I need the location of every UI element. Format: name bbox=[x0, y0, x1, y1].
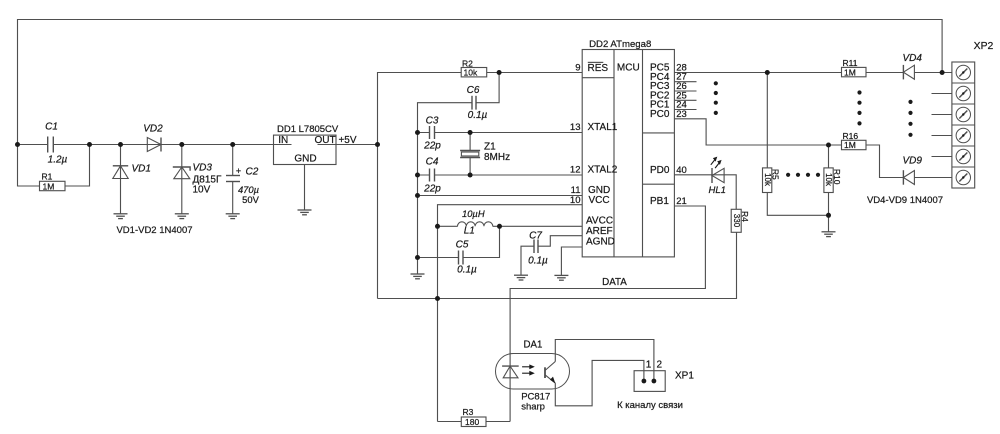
svg-text:12: 12 bbox=[570, 165, 581, 176]
opto coupling arrows bbox=[522, 364, 535, 375]
svg-text:R11: R11 bbox=[843, 58, 858, 68]
junction node VCC rail +5V rail cross bbox=[435, 296, 440, 301]
junction node GND rail XTAL2 bbox=[415, 173, 420, 178]
svg-text:C5: C5 bbox=[456, 240, 469, 251]
capacitor C4 bbox=[423, 157, 441, 195]
svg-text:OUT: OUT bbox=[314, 135, 335, 146]
wire XTAL1 line bbox=[418, 132, 583, 134]
wire crystal Z1 taps bbox=[469, 133, 471, 151]
svg-text:MCU: MCU bbox=[617, 62, 640, 73]
wire PC5 net to R11 and VD4 to XP2 bbox=[674, 72, 903, 74]
junction node +5V at DD1 OUT bbox=[375, 142, 380, 147]
crystal Z1 8MHz bbox=[460, 142, 510, 164]
LED HL1 bbox=[709, 157, 726, 196]
wire opto emitter to XP1 pin1 bbox=[555, 360, 644, 405]
svg-text:VD9: VD9 bbox=[903, 156, 923, 167]
ground under C7 bbox=[514, 275, 528, 280]
MCU U1 DD2 ATmega8 box bbox=[582, 39, 674, 257]
resistor R3 bbox=[461, 407, 486, 427]
wire XP2 stub pin5 bbox=[932, 156, 953, 158]
svg-text:1M: 1M bbox=[43, 181, 55, 191]
svg-text:+: + bbox=[236, 166, 241, 176]
svg-text:180: 180 bbox=[465, 417, 479, 427]
wire R16 to VD9 to XP2 pin6 bbox=[866, 145, 903, 178]
diode VD9 bbox=[903, 156, 923, 185]
svg-text:sharp: sharp bbox=[521, 402, 545, 413]
zener diode VD3 bbox=[173, 163, 222, 196]
junction node C1-R1 right bbox=[87, 142, 92, 147]
ground under GND rail bbox=[411, 274, 425, 279]
svg-text:PD0: PD0 bbox=[650, 165, 670, 176]
svg-text:C7: C7 bbox=[529, 231, 542, 242]
svg-text:XP1: XP1 bbox=[675, 370, 694, 381]
junction node C2 tap bbox=[230, 142, 235, 147]
svg-text:23: 23 bbox=[676, 109, 687, 120]
svg-text:К каналу связи: К каналу связи bbox=[617, 400, 683, 411]
wire PC0 to R16 line bbox=[674, 119, 866, 145]
junction node Z1 bottom bbox=[468, 173, 473, 178]
wire R5 R10 bottom rail to ground bbox=[767, 193, 828, 216]
svg-text:10k: 10k bbox=[763, 173, 772, 187]
svg-text:R1: R1 bbox=[42, 171, 53, 181]
resistor R2 bbox=[461, 59, 487, 78]
diode VD1 bbox=[113, 163, 151, 178]
svg-text:13: 13 bbox=[570, 122, 581, 133]
wire AREF to C7 to ground bbox=[538, 236, 582, 247]
resistor R10 bbox=[824, 168, 842, 193]
svg-text:8MHz: 8MHz bbox=[484, 152, 510, 163]
svg-text:VD4: VD4 bbox=[903, 53, 923, 64]
svg-text:1.2µ: 1.2µ bbox=[48, 155, 68, 166]
svg-text:XP2: XP2 bbox=[974, 41, 994, 52]
ground under AGND bbox=[554, 275, 568, 280]
resistor R4 bbox=[731, 209, 750, 232]
junction node AVCC L1 right bbox=[497, 224, 502, 229]
svg-text:DA1: DA1 bbox=[524, 339, 543, 350]
svg-text:330: 330 bbox=[732, 214, 741, 228]
svg-text:RES: RES bbox=[588, 63, 609, 74]
wire C2 branch to ground bbox=[232, 145, 234, 176]
capacitor C7 bbox=[528, 231, 548, 267]
ellipsis dots PC4-PC1 continuation bbox=[714, 81, 718, 115]
wire PB1 to DATA to optocoupler LED anode bbox=[510, 206, 705, 354]
svg-text:0.1µ: 0.1µ bbox=[468, 110, 488, 121]
wire VD3 branch to ground bbox=[181, 145, 183, 214]
wire opto collector to XP1 pin2 bbox=[555, 340, 654, 382]
svg-text:10µH: 10µH bbox=[462, 208, 485, 219]
wire DD1 GND pin to ground bbox=[304, 165, 306, 211]
junction node RES / C6 tap bbox=[497, 70, 502, 75]
svg-text:C3: C3 bbox=[426, 116, 439, 127]
opto internal LED bbox=[502, 354, 519, 378]
svg-text:9: 9 bbox=[575, 62, 580, 73]
ground under C2 bbox=[226, 214, 240, 219]
ground under DD1 bbox=[298, 210, 312, 215]
wire AGND to ground bbox=[561, 247, 582, 275]
optocoupler DA1 PC817 body bbox=[496, 339, 570, 412]
wire PD0 to HL1 to R4 bbox=[674, 175, 736, 210]
svg-text:1M: 1M bbox=[844, 67, 856, 77]
capacitor C3 bbox=[423, 116, 441, 152]
wire top loop from mains input to XP2 pin1 bbox=[18, 20, 943, 145]
wire R10 from R16 node bbox=[828, 145, 830, 168]
svg-text:VD3: VD3 bbox=[193, 163, 213, 174]
wire C6 link RES node to GND rail bbox=[418, 73, 500, 133]
svg-text:0.1µ: 0.1µ bbox=[457, 265, 477, 276]
resistor R5 bbox=[763, 168, 781, 193]
svg-text:1M: 1M bbox=[844, 140, 856, 150]
wire +5V bottom rail bbox=[378, 232, 737, 298]
svg-text:GND: GND bbox=[294, 154, 316, 165]
resistor R16 bbox=[842, 131, 867, 150]
svg-text:VD4-VD9 1N4007: VD4-VD9 1N4007 bbox=[867, 195, 943, 206]
wire PC3 stub bbox=[674, 90, 696, 92]
svg-text:R3: R3 bbox=[463, 407, 474, 417]
svg-text:VD1: VD1 bbox=[132, 163, 151, 174]
junction node AC input / R1 left bbox=[15, 142, 20, 147]
svg-text:PB1: PB1 bbox=[650, 196, 669, 207]
wire VCC pin 10 line and VCC rail bbox=[438, 205, 583, 422]
capacitor C2 electrolytic bbox=[226, 166, 260, 205]
svg-text:10k: 10k bbox=[824, 173, 833, 187]
wire XP2 stub pin4 bbox=[932, 135, 953, 137]
wire AVCC line bbox=[438, 225, 458, 227]
svg-text:1: 1 bbox=[646, 360, 652, 371]
capacitor C5 bbox=[456, 240, 477, 276]
junction node XP2 pin1 / top loop bbox=[940, 70, 945, 75]
svg-text:2: 2 bbox=[657, 360, 663, 371]
svg-text:C1: C1 bbox=[45, 122, 58, 133]
connector XP1 bbox=[634, 360, 694, 392]
svg-text:50V: 50V bbox=[242, 194, 259, 205]
wire PC2 stub bbox=[674, 99, 696, 101]
svg-text:AREF: AREF bbox=[586, 226, 613, 237]
ellipsis dots R12-R15 continuation bbox=[857, 90, 861, 125]
svg-text:Z1: Z1 bbox=[484, 142, 496, 153]
svg-text:0.1µ: 0.1µ bbox=[528, 255, 548, 266]
svg-text:VCC: VCC bbox=[589, 195, 610, 206]
diode VD4 bbox=[903, 53, 923, 79]
svg-text:C2: C2 bbox=[246, 167, 259, 178]
svg-text:22p: 22p bbox=[423, 140, 441, 151]
junction node Z1 top bbox=[468, 130, 473, 135]
svg-text:VD2: VD2 bbox=[143, 124, 163, 135]
junction node VCC rail L1 left bbox=[435, 224, 440, 229]
svg-text:22p: 22p bbox=[423, 183, 441, 194]
wire R1 parallel branch bbox=[18, 145, 40, 187]
svg-text:L1: L1 bbox=[464, 226, 475, 237]
voltage regulator DD1 L7805CV bbox=[274, 124, 339, 164]
svg-text:IN: IN bbox=[278, 135, 288, 146]
wire C5 line bbox=[418, 257, 459, 259]
svg-text:XTAL1: XTAL1 bbox=[588, 122, 618, 133]
wire XTAL2 line bbox=[418, 174, 583, 176]
opto phototransistor bbox=[545, 362, 555, 384]
ground under VD1 bbox=[114, 214, 128, 219]
svg-text:21: 21 bbox=[676, 196, 687, 207]
svg-text:HL1: HL1 bbox=[709, 185, 726, 196]
wire main AC line bbox=[18, 144, 274, 146]
junction node GND rail C5 bbox=[415, 255, 420, 260]
svg-text:C4: C4 bbox=[426, 157, 439, 168]
wire GND pin 11 line bbox=[418, 195, 583, 197]
ground under R5 R10 rail bbox=[822, 232, 836, 237]
capacitor C1 bbox=[45, 122, 67, 166]
wire left GND rail bbox=[417, 133, 419, 275]
resistor R11 bbox=[842, 58, 867, 78]
wire R5 pull-up from PC5 net bbox=[766, 73, 768, 168]
svg-text:10k: 10k bbox=[464, 68, 478, 78]
wire VD1 branch to ground bbox=[120, 145, 122, 214]
inductor L1 10uH bbox=[458, 208, 493, 237]
svg-text:VD1-VD2 1N4007: VD1-VD2 1N4007 bbox=[116, 225, 192, 236]
ground under VD3 bbox=[175, 214, 189, 219]
connector XP2 bbox=[952, 41, 994, 188]
capacitor C6 bbox=[467, 85, 488, 121]
svg-text:10: 10 bbox=[570, 195, 581, 206]
svg-text:DD1 L7805CV: DD1 L7805CV bbox=[277, 124, 339, 135]
junction node VD3 tap bbox=[179, 142, 184, 147]
wire opto LED through cathode down to R3 bbox=[509, 378, 511, 422]
junction node R16 line R10 tap bbox=[826, 143, 831, 148]
wire XP2 stub pin3 bbox=[932, 114, 953, 116]
svg-text:DD2 ATmega8: DD2 ATmega8 bbox=[589, 39, 651, 50]
wire R3 feed from +5V rail bbox=[438, 421, 511, 423]
svg-text:PC0: PC0 bbox=[650, 109, 670, 120]
svg-text:40: 40 bbox=[676, 165, 687, 176]
wire PC1 stub bbox=[674, 109, 696, 111]
svg-text:DATA: DATA bbox=[602, 277, 627, 288]
diode VD2 bbox=[143, 124, 163, 152]
svg-text:AGND: AGND bbox=[586, 236, 615, 247]
wire +5V vertical riser and RES feed bbox=[378, 73, 583, 299]
wire PC4 stub bbox=[674, 81, 696, 83]
svg-text:C6: C6 bbox=[467, 85, 480, 96]
junction node PC5 net R5 tap bbox=[765, 70, 770, 75]
junction node VD1 tap bbox=[118, 142, 123, 147]
svg-text:XTAL2: XTAL2 bbox=[588, 165, 618, 176]
junction node GND rail pin11 bbox=[415, 193, 420, 198]
ellipsis dots VD5-VD8 continuation bbox=[908, 100, 912, 137]
wire XP2 stub pin2 bbox=[932, 93, 953, 95]
junction node R5-R10 rail ground tap bbox=[826, 213, 831, 218]
wire OUT to +5V node bbox=[336, 144, 378, 146]
resistor R1 bbox=[40, 171, 66, 191]
svg-text:10V: 10V bbox=[193, 184, 211, 195]
svg-text:+5V: +5V bbox=[338, 135, 356, 146]
junction node GND rail XTAL1 bbox=[415, 130, 420, 135]
ellipsis dots R6-R9 continuation bbox=[786, 173, 820, 177]
